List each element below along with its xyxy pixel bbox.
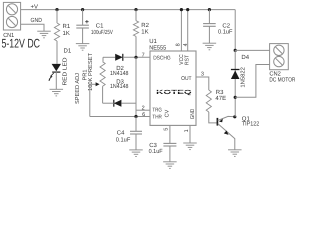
wire pin2 bbox=[136, 109, 150, 111]
transistor Q1 bbox=[217, 116, 235, 149]
svg-text:1K: 1K bbox=[141, 28, 148, 35]
wire C3 to ground bbox=[169, 146, 171, 162]
capacitor C1 plus bbox=[85, 20, 88, 23]
resistor R2 bbox=[133, 21, 138, 37]
svg-text:D1: D1 bbox=[64, 48, 72, 55]
svg-text:+V: +V bbox=[31, 3, 39, 10]
svg-text:CN2: CN2 bbox=[269, 70, 281, 77]
wire C1 to ground bbox=[82, 28, 84, 44]
svg-text:1N5822: 1N5822 bbox=[241, 67, 247, 88]
wire D1 to ground bbox=[55, 72, 57, 89]
svg-text:DC MOTOR: DC MOTOR bbox=[269, 77, 296, 84]
svg-text:100uF/25V: 100uF/25V bbox=[91, 29, 113, 36]
capacitor C1 bbox=[76, 24, 89, 26]
node pin7 junction bbox=[134, 56, 137, 59]
wire D2 to node bbox=[123, 56, 150, 58]
svg-text:TIP122: TIP122 bbox=[242, 121, 260, 128]
svg-text:TRG: TRG bbox=[152, 108, 162, 114]
wire pin3 bbox=[196, 77, 209, 90]
svg-text:C4: C4 bbox=[117, 130, 125, 137]
svg-text:2: 2 bbox=[142, 105, 145, 111]
wire pin4 bbox=[187, 10, 189, 51]
svg-text:1K: 1K bbox=[63, 30, 70, 37]
svg-text:R3: R3 bbox=[216, 89, 224, 96]
svg-text:0.1uF: 0.1uF bbox=[149, 148, 163, 155]
svg-text:DSCHG: DSCHG bbox=[153, 55, 171, 61]
ground Q1 bbox=[228, 149, 242, 151]
wire C2 top bbox=[208, 10, 210, 24]
diode D3 bbox=[114, 100, 122, 107]
wire pin8 bbox=[180, 10, 182, 51]
wire junction vertical bbox=[135, 57, 137, 116]
svg-text:5: 5 bbox=[164, 128, 170, 131]
wire D3 anode to vertical bbox=[121, 102, 136, 104]
node Q1 collector bbox=[233, 115, 236, 118]
op-amp U1 NE555 body bbox=[150, 51, 196, 125]
svg-text:6: 6 bbox=[142, 112, 145, 118]
wire +V rail bbox=[21, 9, 236, 11]
wire top to PR1 bbox=[102, 57, 104, 61]
svg-text:U1: U1 bbox=[149, 38, 157, 45]
wire D4 net bbox=[234, 50, 236, 116]
preset PR1 resistor bbox=[100, 62, 105, 86]
svg-text:KOTEQ: KOTEQ bbox=[156, 89, 192, 96]
svg-text:GND: GND bbox=[190, 109, 196, 120]
resistor R1 bbox=[54, 23, 59, 41]
resistor R3 bbox=[206, 90, 211, 112]
wire R2 top bbox=[135, 10, 137, 21]
wire D3 bbox=[103, 102, 114, 104]
svg-text:7: 7 bbox=[142, 52, 145, 58]
svg-text:NE555: NE555 bbox=[149, 44, 167, 51]
ground D1 bbox=[50, 88, 64, 90]
ground pin1 bbox=[183, 142, 197, 144]
svg-text:1: 1 bbox=[184, 129, 190, 132]
diode D4 bbox=[231, 71, 240, 80]
wire PR1 bottom bbox=[102, 86, 104, 103]
wire pin5 bbox=[169, 125, 171, 143]
node motor junction bbox=[234, 96, 237, 99]
node pin4 bbox=[186, 8, 189, 11]
node R2 top bbox=[134, 8, 137, 11]
ground C1 bbox=[76, 43, 90, 45]
svg-text:RST: RST bbox=[184, 54, 190, 65]
wire pin1 bbox=[189, 125, 191, 143]
svg-text:CV: CV bbox=[164, 109, 170, 117]
node D4 top bbox=[234, 49, 237, 52]
svg-text:R1: R1 bbox=[63, 23, 71, 30]
svg-text:R2: R2 bbox=[141, 22, 149, 29]
wire R2 bottom bbox=[135, 36, 137, 57]
node R1 top bbox=[55, 8, 58, 11]
svg-text:C2: C2 bbox=[222, 23, 230, 30]
capacitor C2 bbox=[203, 23, 216, 25]
wire PR1 top to D2 bbox=[103, 56, 115, 58]
capacitor C4 bbox=[130, 130, 142, 132]
svg-text:1N4148: 1N4148 bbox=[110, 83, 129, 90]
wire motor bbox=[235, 65, 269, 98]
svg-text:0.1uF: 0.1uF bbox=[218, 29, 233, 36]
svg-text:5-12V DC: 5-12V DC bbox=[2, 37, 41, 51]
preset PR1 wiper bbox=[90, 82, 100, 116]
ground C3 bbox=[163, 161, 177, 163]
ground C4 bbox=[129, 149, 143, 151]
wire R1 to D1 bbox=[56, 41, 58, 64]
diode D2 bbox=[115, 54, 123, 61]
wire CN2 top bbox=[235, 49, 269, 51]
wire rail to CN2 bbox=[234, 10, 236, 51]
node pin6 junction bbox=[134, 115, 137, 118]
wire R3 to base bbox=[209, 112, 217, 123]
connector CN2 bbox=[270, 44, 289, 70]
svg-text:0.1uF: 0.1uF bbox=[116, 137, 131, 144]
ground C2 bbox=[203, 42, 217, 44]
node C1 top bbox=[81, 8, 84, 11]
connector CN1 bbox=[3, 2, 20, 30]
wire C1 top bbox=[82, 10, 84, 26]
wire C4 to ground bbox=[135, 134, 137, 150]
capacitor C3 bbox=[163, 142, 176, 144]
svg-text:GND: GND bbox=[31, 17, 43, 24]
svg-text:SPEED ADJ: SPEED ADJ bbox=[75, 73, 81, 104]
ground CN1 bbox=[37, 30, 51, 32]
LED D1 bbox=[48, 64, 61, 81]
wire GND bbox=[21, 24, 44, 31]
node pin8 bbox=[180, 8, 183, 11]
wire R1 top bbox=[56, 10, 58, 23]
svg-text:47E: 47E bbox=[215, 95, 226, 102]
svg-text:8: 8 bbox=[176, 43, 182, 46]
wire C2 to ground bbox=[208, 26, 210, 43]
svg-text:C1: C1 bbox=[96, 23, 104, 30]
svg-text:THR: THR bbox=[152, 114, 162, 120]
wire pin6 bbox=[90, 116, 150, 118]
svg-text:4: 4 bbox=[183, 43, 189, 46]
svg-text:3: 3 bbox=[201, 72, 204, 78]
svg-text:1N4148: 1N4148 bbox=[110, 70, 129, 77]
svg-text:RED LED: RED LED bbox=[62, 58, 68, 86]
wire C4 top bbox=[135, 117, 137, 132]
svg-text:OUT: OUT bbox=[181, 76, 192, 82]
svg-text:D4: D4 bbox=[241, 54, 249, 61]
node C2 top bbox=[208, 8, 211, 11]
svg-text:100K PRESET: 100K PRESET bbox=[88, 52, 94, 91]
